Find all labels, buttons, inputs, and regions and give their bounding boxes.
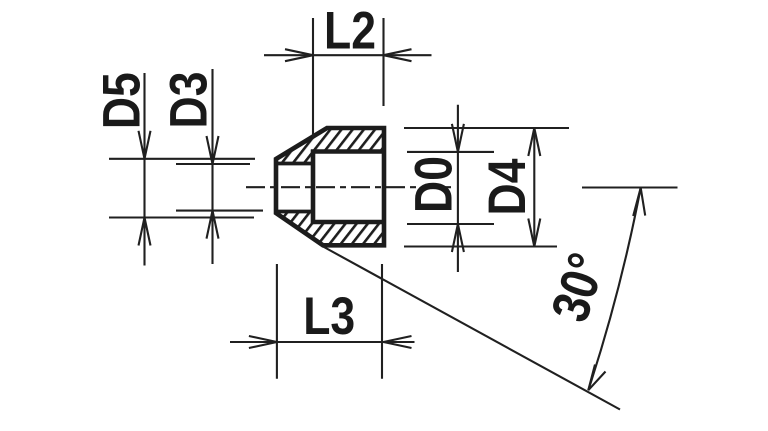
body bore cavity <box>313 152 384 223</box>
dimension L2 extension left <box>312 18 314 137</box>
dimension D3 line <box>211 69 213 264</box>
neck top inner edge <box>276 162 313 166</box>
dimension L3 extension left <box>276 264 278 379</box>
dimension D5 extension top <box>109 158 255 160</box>
dimension L3 line <box>230 341 415 343</box>
svg-text:D4: D4 <box>478 159 536 216</box>
bore top edge <box>311 149 384 154</box>
part outer outline <box>276 128 384 245</box>
dimension D3 arrow top <box>207 136 219 164</box>
part section hatched body upper half <box>276 128 384 187</box>
bore left step edge <box>311 150 316 225</box>
dimension D5 extension bottom <box>109 216 254 218</box>
dimension D3 arrow bottom <box>207 211 219 239</box>
neck bottom inner edge <box>276 210 313 214</box>
dimension L2 line <box>264 54 432 56</box>
bore bottom edge <box>311 220 384 225</box>
dimension D0 arrow top <box>452 124 464 152</box>
dimension L3 extension right <box>381 264 383 379</box>
dimension L2 arrow left <box>285 49 313 61</box>
part section hatched body lower half <box>276 187 384 245</box>
dimension D0 arrow bottom <box>452 224 464 252</box>
cone angle line <box>323 247 620 410</box>
dimension L2 arrow right <box>384 49 412 61</box>
dimension D4 extension bottom <box>404 245 557 247</box>
svg-text:L2: L2 <box>324 2 376 60</box>
svg-text:L3: L3 <box>303 287 355 345</box>
dimension L3 arrow left <box>249 336 277 348</box>
dimension D5 arrow bottom <box>139 218 151 246</box>
dimension D0 extension bottom <box>407 223 494 225</box>
neck bore cavity <box>276 164 313 212</box>
dimension D3 extension bottom <box>176 210 263 212</box>
dimension D3 extension top <box>176 163 250 165</box>
dimension D4 arrow top <box>528 128 540 156</box>
svg-text:D3: D3 <box>160 72 218 129</box>
svg-text:D5: D5 <box>93 72 151 129</box>
dimension D4 extension top <box>404 127 569 129</box>
dimension L2 extension right <box>382 18 384 106</box>
dimension D0 extension top <box>407 151 494 153</box>
dimension D5 arrow top <box>139 131 151 159</box>
angle reference line <box>582 186 678 188</box>
dimension D5 line <box>143 73 145 266</box>
svg-text:D0: D0 <box>405 156 463 213</box>
centerline <box>246 186 456 188</box>
angle arrow top <box>633 188 645 216</box>
dimension D0 line <box>457 105 459 272</box>
angle arrow bottom <box>588 365 605 391</box>
angle arc <box>588 188 640 390</box>
dimension D4 line <box>533 128 535 247</box>
dimension L3 arrow right <box>384 336 412 348</box>
dimension D4 arrow bottom <box>528 219 540 247</box>
